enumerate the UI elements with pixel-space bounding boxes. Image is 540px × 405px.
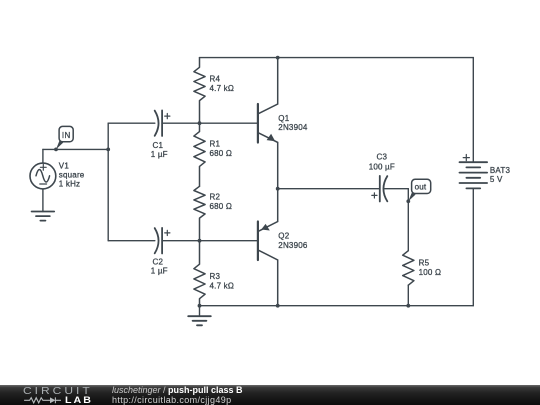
svg-text:C2: C2 (153, 258, 164, 267)
svg-text:V1: V1 (59, 162, 70, 171)
capacitor C3 (369, 153, 395, 202)
svg-text:100 Ω: 100 Ω (419, 268, 442, 277)
junction node Q2 collector / bottom rail (276, 304, 280, 308)
svg-text:C1: C1 (153, 141, 164, 150)
wire V1 top lead (42, 149, 44, 163)
wire IN row (43, 148, 108, 150)
footer title (112, 386, 243, 395)
wire out corner down to R5 (407, 189, 409, 251)
capacitor C1 (151, 110, 170, 158)
svg-text:2N3904: 2N3904 (278, 123, 308, 132)
voltage source V1 (30, 162, 85, 189)
wire V1 bottom lead (42, 189, 44, 212)
svg-text:square: square (59, 171, 85, 180)
svg-text:1 kHz: 1 kHz (59, 180, 80, 189)
wire Q2 base (200, 240, 258, 242)
junction node R2/R3/C2/Q2 base (198, 239, 202, 243)
wire C2 left lead (108, 240, 155, 242)
junction node left column / IN row (106, 148, 110, 152)
wire bottom rail (200, 305, 474, 307)
svg-text:out: out (415, 183, 427, 192)
svg-text:R3: R3 (210, 272, 221, 281)
CircuitLab logo LAB (65, 396, 93, 405)
junction node Q1 collector / top rail (276, 56, 280, 60)
svg-text:5 V: 5 V (490, 175, 503, 184)
svg-text:680 Ω: 680 Ω (210, 202, 233, 211)
footer url (112, 396, 232, 405)
svg-text:C3: C3 (377, 153, 388, 162)
svg-text:R5: R5 (419, 258, 430, 267)
resistor R5 (403, 251, 441, 286)
ground (R3 / bottom rail) (188, 316, 211, 325)
junction node output (emitters/C3) (276, 187, 280, 191)
transistor Q2 2N3906 PNP (258, 189, 308, 306)
svg-text:BAT3: BAT3 (490, 166, 511, 175)
junction node IN/V1 (54, 148, 58, 152)
wire R5 bottom lead (407, 285, 409, 306)
logo resistor-diode glyph (23, 396, 63, 405)
svg-text:Q2: Q2 (278, 231, 289, 240)
resistor R2 (194, 186, 232, 240)
CircuitLab logo CIRCUIT (23, 387, 93, 396)
svg-text:1 µF: 1 µF (151, 150, 168, 159)
svg-text:R4: R4 (210, 74, 221, 83)
flag IN (56, 126, 73, 149)
transistor Q1 2N3904 NPN (258, 58, 308, 189)
junction node R3/ground/bottom rail (198, 304, 202, 308)
wire right rail upper (to battery +) (472, 58, 474, 163)
wire output row (Q emitters node to C3) (278, 188, 380, 190)
wire C1 right lead to node (162, 122, 199, 124)
svg-text:R2: R2 (210, 193, 221, 202)
svg-text:Q1: Q1 (278, 114, 289, 123)
svg-text:680 Ω: 680 Ω (210, 149, 233, 158)
ground (V1) (32, 212, 55, 221)
wire C3 right lead to out corner (385, 188, 409, 190)
junction node out flag (406, 199, 410, 203)
junction node R4/R1/C1/Q1 base (198, 121, 202, 125)
svg-text:4.7 kΩ: 4.7 kΩ (210, 281, 235, 290)
wire R3 ground stub (199, 306, 201, 317)
resistor R4 (194, 58, 234, 124)
flag out (408, 179, 430, 201)
svg-text:100 µF: 100 µF (369, 162, 395, 171)
wire right rail lower (battery - to bottom rail) (472, 188, 474, 305)
wire C2 right lead to node (162, 240, 199, 242)
battery BAT3 (460, 155, 511, 189)
svg-text:2N3906: 2N3906 (278, 241, 308, 250)
wire Q1 base (200, 122, 258, 124)
svg-text:R1: R1 (210, 140, 221, 149)
svg-text:1 µF: 1 µF (151, 266, 168, 275)
wire left column vertical (107, 123, 109, 241)
resistor R3 (194, 241, 234, 306)
svg-text:4.7 kΩ: 4.7 kΩ (210, 84, 235, 93)
wire top rail (200, 57, 474, 59)
resistor R1 (194, 123, 232, 186)
capacitor C2 (151, 228, 170, 276)
footer bar (0, 385, 540, 405)
svg-text:IN: IN (62, 131, 71, 140)
wire base row upper (C1 left lead from left column) (108, 122, 155, 124)
junction node R5 / bottom rail (406, 304, 410, 308)
